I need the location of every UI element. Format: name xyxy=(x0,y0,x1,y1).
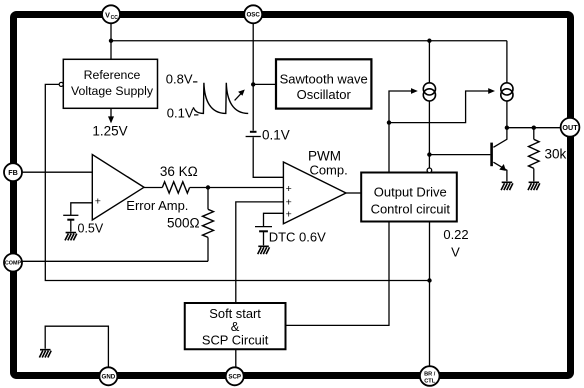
svg-text:0.1V: 0.1V xyxy=(167,106,194,121)
wire top Vcc rail xyxy=(111,40,507,42)
wire output drive to BR/CTL pin xyxy=(429,222,431,367)
node junction OSC branch xyxy=(251,82,255,86)
pin OUT xyxy=(561,118,580,137)
wire output drive to soft start box xyxy=(286,222,390,326)
node feedback bubble on reference box xyxy=(59,82,63,86)
ground at GND pin xyxy=(39,350,51,358)
svg-text:V: V xyxy=(105,10,110,19)
box U2 Sawtooth wave Oscillator xyxy=(276,59,371,108)
wire COMP to 500 Ohm xyxy=(22,260,209,262)
wire DTC battery to PWM comparator input 3 xyxy=(264,213,284,226)
tick 0.8V level xyxy=(193,81,197,83)
comparator PWM Comp. xyxy=(283,162,346,224)
node junction transistor base branch xyxy=(427,152,431,156)
battery 0.1V sawtooth reference xyxy=(246,132,261,137)
svg-text:SCP: SCP xyxy=(228,374,241,381)
svg-text:1.25V: 1.25V xyxy=(92,124,127,139)
arrow sawtooth direction xyxy=(235,90,245,101)
wire PWM output to output drive box xyxy=(346,192,361,194)
svg-text:Output Drive: Output Drive xyxy=(374,185,447,200)
ground at transistor emitter xyxy=(501,182,513,190)
wire GND pin to ground xyxy=(45,326,108,367)
svg-text:CTL: CTL xyxy=(424,378,435,384)
resistor 30k xyxy=(529,128,540,182)
ground at DTC battery xyxy=(258,246,270,254)
svg-text:+: + xyxy=(286,183,292,195)
arrow 1.25V reference output xyxy=(108,108,114,123)
svg-text:Oscillator: Oscillator xyxy=(297,87,352,102)
node junction Vcc rail at left current source xyxy=(427,39,431,43)
svg-text:Comp.: Comp. xyxy=(309,163,347,178)
pin GND xyxy=(99,367,117,385)
wire left current source to output drive bubble xyxy=(428,101,430,168)
svg-text:Sawtooth wave: Sawtooth wave xyxy=(280,71,368,86)
pin Vcc xyxy=(102,5,120,23)
svg-text:OSC: OSC xyxy=(246,12,260,19)
transistor Q1 output NPN xyxy=(492,128,507,182)
svg-text:0.8V: 0.8V xyxy=(166,72,193,87)
arrow into right current source xyxy=(488,88,495,94)
op-amp error amplifier xyxy=(92,155,144,221)
battery DTC 0.6V xyxy=(255,227,272,246)
svg-text:36 KΩ: 36 KΩ xyxy=(160,164,198,179)
pin COMP xyxy=(4,254,22,272)
ground at 30k resistor xyxy=(528,182,540,190)
svg-text:Control circuit: Control circuit xyxy=(371,201,451,216)
svg-text:Reference: Reference xyxy=(84,68,141,82)
svg-text:0.1V: 0.1V xyxy=(262,127,290,142)
wire drop to left current source xyxy=(428,41,430,83)
node junction error amp output xyxy=(206,185,210,189)
box U3 Output Drive Control circuit xyxy=(361,173,457,222)
wire output drive control to current source arrows xyxy=(389,91,413,173)
svg-text:PWM: PWM xyxy=(308,149,341,164)
pin SCP xyxy=(226,367,244,385)
wire resistor to PWM comparator xyxy=(190,187,284,189)
pin BR/CTL xyxy=(420,366,440,386)
resistor 500 Ohm xyxy=(203,188,214,262)
wire control branch to right current source arrow xyxy=(389,91,490,123)
current source right xyxy=(501,83,513,101)
wire battery to PWM comparator sawtooth input xyxy=(253,137,283,177)
svg-text:Voltage Supply: Voltage Supply xyxy=(71,84,154,98)
svg-text:V: V xyxy=(451,245,460,260)
svg-text:SCP Circuit: SCP Circuit xyxy=(202,333,269,348)
wire Vcc drop to reference box xyxy=(110,23,112,59)
waveform sawtooth xyxy=(193,83,248,114)
wire 0.5V source to error amp plus input xyxy=(71,203,93,215)
box U1 Reference Voltage Supply xyxy=(63,59,157,108)
node junction collector OUT xyxy=(505,126,509,130)
pin OSC xyxy=(244,5,262,23)
svg-text:GND: GND xyxy=(102,374,116,381)
svg-text:+: + xyxy=(95,196,101,208)
svg-text:OUT: OUT xyxy=(562,123,578,132)
resistor 36 KOhm xyxy=(162,182,189,193)
node junction Vcc rail at reference xyxy=(109,39,113,43)
svg-text:COMP: COMP xyxy=(5,261,22,267)
wire soft start to PWM comparator input 2 xyxy=(236,202,284,303)
wire right current source to OUT node xyxy=(506,101,508,128)
svg-text:FB: FB xyxy=(8,168,18,177)
tick 0.1V level xyxy=(194,114,198,116)
wire OUT node to OUT pin xyxy=(507,127,561,129)
node bubble on output drive box top xyxy=(427,168,432,173)
wire FB input to error amp xyxy=(22,171,93,173)
svg-text:Error Amp.: Error Amp. xyxy=(126,198,188,213)
svg-text:500Ω: 500Ω xyxy=(167,216,200,231)
svg-text:+: + xyxy=(286,209,292,221)
node junction feedback at BR/CTL line xyxy=(427,278,431,282)
node junction control branch xyxy=(387,120,391,124)
wire reference feedback to BR/CTL net xyxy=(45,84,429,280)
node junction 30k branch xyxy=(532,126,536,130)
wire base drive xyxy=(429,154,490,156)
wire error amp output lead xyxy=(144,187,162,189)
svg-text:CC: CC xyxy=(111,15,119,21)
wire rail corner down to right current source xyxy=(506,41,508,83)
pin FB xyxy=(4,163,22,181)
wire OSC drop xyxy=(252,23,254,130)
svg-text:+: + xyxy=(286,197,292,209)
current source left xyxy=(423,83,435,101)
box U4 Soft start and SCP Circuit xyxy=(185,303,286,349)
svg-text:BR /: BR / xyxy=(424,371,436,377)
svg-text:0.5V: 0.5V xyxy=(78,222,104,236)
svg-text:0.22: 0.22 xyxy=(443,227,468,242)
svg-text:30k: 30k xyxy=(545,146,567,161)
wire soft start box to SCP pin xyxy=(235,349,237,367)
ground at 0.5V battery xyxy=(65,233,77,241)
arrow into left current source xyxy=(411,88,418,94)
battery 0.5V error amp reference xyxy=(63,215,78,231)
wire OSC to sawtooth oscillator box xyxy=(253,83,276,85)
svg-text:DTC 0.6V: DTC 0.6V xyxy=(269,230,326,245)
